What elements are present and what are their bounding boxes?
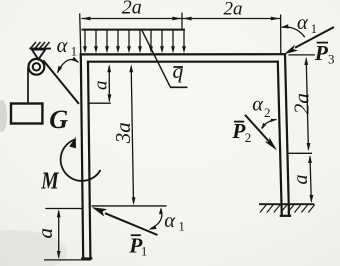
svg-text:α: α bbox=[252, 94, 264, 116]
svg-text:α: α bbox=[297, 12, 309, 34]
svg-text:a: a bbox=[290, 175, 312, 185]
svg-text:a: a bbox=[90, 81, 111, 91]
svg-text:1: 1 bbox=[141, 245, 147, 259]
svg-text:3: 3 bbox=[328, 52, 335, 67]
svg-text:1: 1 bbox=[311, 22, 317, 36]
svg-text:q: q bbox=[173, 59, 184, 83]
svg-text:α: α bbox=[164, 210, 176, 232]
svg-text:2a: 2a bbox=[122, 0, 142, 18]
svg-text:G: G bbox=[49, 105, 68, 134]
svg-text:1: 1 bbox=[179, 220, 185, 234]
svg-text:P: P bbox=[314, 41, 329, 65]
svg-text:2a: 2a bbox=[224, 0, 243, 20]
svg-text:3a: 3a bbox=[111, 122, 135, 144]
svg-text:M: M bbox=[40, 169, 60, 195]
svg-text:2: 2 bbox=[264, 105, 271, 120]
svg-text:α: α bbox=[57, 35, 69, 57]
svg-text:1: 1 bbox=[71, 45, 77, 59]
svg-text:2a: 2a bbox=[289, 93, 313, 114]
svg-text:a: a bbox=[33, 228, 57, 239]
svg-text:2: 2 bbox=[245, 130, 252, 145]
